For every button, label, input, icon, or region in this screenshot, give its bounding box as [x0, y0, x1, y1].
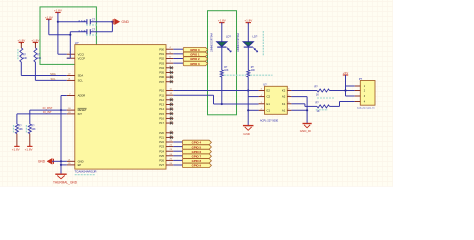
wire P10 to opto E2 — [173, 90, 258, 92]
connector P? body — [360, 81, 375, 106]
net port GPIO 3 — [183, 61, 207, 65]
junction caps to GND — [111, 21, 113, 23]
svg-text:P12: P12 — [159, 98, 164, 102]
no-connect mark on P21 — [170, 136, 173, 139]
svg-text:+1.8V: +1.8V — [31, 38, 39, 42]
wire A1 to GND_DI rail — [291, 109, 307, 111]
capacitor C? row 1 0.1uF — [58, 21, 87, 23]
svg-text:19MM03C5RT04A: 19MM03C5RT04A — [237, 33, 240, 52]
pin P12 (right) — [166, 99, 173, 101]
svg-text:A1: A1 — [282, 108, 286, 112]
svg-text:RESET: RESET — [78, 108, 87, 112]
ground symbol GND (below opto) — [243, 125, 254, 127]
svg-text:P06: P06 — [159, 75, 164, 79]
svg-text:+1.8V: +1.8V — [17, 38, 25, 42]
svg-text:GPIO 3: GPIO 3 — [190, 62, 200, 66]
wire P26 to port — [173, 159, 182, 161]
svg-text:GPIO 0: GPIO 0 — [190, 48, 200, 52]
ground symbol THERMAL_GND — [55, 173, 66, 175]
pin P24 (right) — [166, 150, 173, 152]
pin P11 (right) — [166, 94, 173, 96]
svg-text:GPIO 9: GPIO 9 — [192, 164, 202, 168]
no-connect mark on P15 — [170, 112, 173, 115]
pin RESET (left) — [67, 109, 75, 111]
svg-text:10K: 10K — [19, 128, 24, 131]
svg-text:GND: GND — [243, 132, 251, 136]
wire P23 to port — [173, 146, 182, 148]
opto pin A2 — [287, 96, 291, 98]
svg-text:C?: C? — [92, 18, 96, 22]
power flag +1.8V (VCCP branch) — [46, 18, 51, 20]
svg-text:GPIO 5: GPIO 5 — [192, 145, 202, 149]
svg-text:1K: 1K — [316, 93, 319, 96]
no-connect mark on P16 — [170, 117, 173, 120]
net IO_RST wire to RESET pin — [30, 109, 67, 111]
pin P23 (right) — [166, 146, 173, 148]
pin P20 (right) — [166, 132, 173, 134]
svg-text:ACPL-227-500E: ACPL-227-500E — [260, 119, 279, 122]
svg-text:10K: 10K — [31, 128, 36, 131]
wire C1 to ground rail — [248, 109, 258, 111]
wire P27 to port — [173, 164, 182, 166]
svg-text:TCA6424ARGJR: TCA6424ARGJR — [75, 170, 97, 174]
svg-text:ADDR: ADDR — [78, 94, 86, 98]
resistor R? 10K on IO_RST — [29, 110, 31, 124]
power flag +1.8V above LED 2 — [246, 22, 251, 24]
svg-text:E1: E1 — [267, 102, 271, 106]
resistor R? 10K pullup to SDA — [20, 42, 22, 48]
junction cap row 1 — [57, 21, 59, 23]
LED LD? 2 — [243, 42, 253, 47]
svg-text:19MM03C5RT04A: 19MM03C5RT04A — [211, 33, 214, 52]
svg-text:GND_DI: GND_DI — [300, 129, 312, 133]
svg-text:GND: GND — [38, 160, 46, 164]
svg-text:P11: P11 — [159, 93, 164, 97]
optocoupler U? ACPL-227 body — [265, 86, 288, 114]
wire P03 to port — [173, 62, 183, 64]
svg-text:P17: P17 — [159, 121, 164, 125]
wire ADDR to ground rail — [61, 95, 67, 97]
pin P22 (right) — [166, 141, 173, 143]
svg-text:+1.8V: +1.8V — [12, 148, 20, 152]
svg-text:LD?: LD? — [226, 35, 231, 39]
svg-text:GPIO 4: GPIO 4 — [192, 141, 202, 145]
pin VCCP (left) — [67, 57, 75, 59]
wire flag2 down and over to VCCP riser — [48, 19, 50, 34]
wire resistor1 to connector pin 2 — [330, 90, 355, 92]
net port GPIO 1 — [183, 52, 207, 56]
svg-text:10K: 10K — [251, 69, 256, 72]
junction flag2 / riser — [69, 34, 71, 36]
wire C2 to ground rail — [248, 96, 258, 98]
pin P15 (right) — [166, 113, 173, 115]
power flag +5V — [343, 74, 348, 76]
power flag +1.8V (over cap row 1) — [55, 12, 60, 14]
net port GPIO 2 — [183, 57, 207, 61]
junction GND rail — [60, 160, 62, 162]
power flag +1.8V above R? (pullup 1) — [19, 41, 24, 43]
ground symbol GND_DI — [303, 123, 312, 125]
capacitor C? row 2 0.1uF — [70, 31, 87, 33]
pin P02 (right) — [166, 58, 173, 60]
pin GND (left) — [67, 160, 75, 162]
pin EP (left) — [67, 164, 75, 166]
svg-text:A2: A2 — [282, 95, 286, 99]
svg-text:10K: 10K — [23, 57, 28, 60]
svg-text:U?: U? — [75, 41, 79, 45]
resistor R? 10K below LED 2 — [247, 70, 250, 77]
svg-text:P01: P01 — [159, 52, 164, 56]
wire pullup2 to SCL line — [34, 62, 36, 80]
svg-text:0.1uF: 0.1uF — [79, 29, 86, 33]
pin SCL (left) — [67, 79, 75, 81]
wire P01 to port — [173, 53, 183, 55]
svg-text:P10: P10 — [159, 89, 164, 93]
svg-text:P00: P00 — [159, 47, 164, 51]
svg-text:P14: P14 — [159, 107, 164, 111]
net port GPIO 4 — [183, 140, 212, 144]
svg-text:E2: E2 — [267, 89, 271, 93]
pin P03 (right) — [166, 62, 173, 64]
no-connect mark on P06 — [170, 76, 173, 79]
svg-text:P04: P04 — [159, 66, 164, 70]
no-connect mark on P14 — [170, 108, 173, 111]
resistor R? 10K pullup to SCL — [34, 42, 36, 48]
pin P05 (right) — [166, 71, 173, 73]
svg-text:P?: P? — [359, 77, 363, 81]
resistor R? 1K (K2 line) — [317, 89, 330, 92]
wire pullup1 to SDA line — [20, 62, 22, 76]
opto pin C2 — [259, 96, 265, 98]
svg-text:EP: EP — [78, 163, 82, 167]
green highlight frame around decoupling caps — [40, 7, 96, 65]
svg-text:P23: P23 — [159, 145, 164, 149]
svg-text:INT: INT — [78, 112, 83, 116]
svg-text:P03: P03 — [159, 61, 164, 65]
svg-text:+1.8V: +1.8V — [54, 9, 62, 13]
wire P22 to port — [173, 141, 182, 143]
junction ADDR rail / RESET wire — [60, 109, 62, 111]
wire +1.8V to LED 1 — [221, 23, 223, 42]
power flag +1.8V below (IO_INT pulldown) — [14, 145, 19, 147]
no-connect mark on P17 — [170, 122, 173, 125]
svg-text:P02: P02 — [159, 57, 164, 61]
branch to connector pin 1 — [346, 85, 355, 87]
pin P21 (right) — [166, 136, 173, 138]
pin P06 (right) — [166, 76, 173, 78]
no-connect mark on P04 — [170, 66, 173, 69]
connector pin 4 — [355, 101, 361, 103]
pin INT (left) — [67, 113, 75, 115]
VCCP riser — [69, 32, 71, 59]
pin VCCI (left) — [67, 53, 75, 55]
wire EP to rail — [61, 164, 67, 166]
wire +5V down — [345, 75, 347, 96]
wire P25 to port — [173, 155, 182, 157]
wire LED 1 to resistor — [221, 47, 223, 70]
svg-text:10K: 10K — [224, 69, 229, 72]
svg-text:+1.8V: +1.8V — [25, 148, 33, 152]
svg-text:1K: 1K — [317, 110, 320, 113]
svg-text:THERMAL_GND: THERMAL_GND — [53, 181, 78, 185]
svg-text:B4B-ZR-SM4-TF: B4B-ZR-SM4-TF — [357, 107, 375, 110]
pin P10 (right) — [166, 90, 173, 92]
svg-text:VCCI: VCCI — [78, 52, 85, 56]
IC U? TCA6424ARGJR body — [75, 45, 166, 170]
wire resistor2 jog up to connector pin 4 — [330, 105, 340, 107]
resistor R? 1K (K1 line) — [317, 105, 330, 108]
wire cap row2 riser to GND junction — [111, 22, 113, 32]
svg-text:SCL: SCL — [78, 79, 84, 83]
svg-text:C1: C1 — [267, 108, 271, 112]
pin P01 (right) — [166, 53, 173, 55]
vertical part number text right of LED 2 — [262, 31, 264, 56]
svg-text:GND: GND — [122, 20, 130, 24]
no-connect mark on P12 — [170, 98, 173, 101]
svg-text:P26: P26 — [159, 159, 164, 163]
opto pin K1 — [287, 103, 291, 105]
pin P13 (right) — [166, 103, 173, 105]
net IO_INT wire to INT pin — [17, 113, 67, 115]
svg-text:0.1uF: 0.1uF — [79, 19, 86, 23]
power flag +1.8V below (IO_RST pulldown) — [27, 145, 32, 147]
svg-text:10K: 10K — [37, 57, 42, 60]
pin P07 (right) — [166, 81, 173, 83]
no-connect mark on P20 — [170, 131, 173, 134]
resistor R? 10K on IO_INT — [16, 114, 18, 124]
wire P11 to opto E1 — [173, 94, 213, 96]
no-connect mark on P13 — [170, 103, 173, 106]
svg-text:GPIO 7: GPIO 7 — [192, 154, 202, 158]
opto pin A1 — [287, 109, 291, 111]
svg-text:C?: C? — [92, 28, 96, 32]
svg-text:SCL: SCL — [50, 77, 56, 81]
wire LED column 2 down to P10 net and C-side ground rail — [247, 77, 249, 97]
svg-text:+5V: +5V — [343, 71, 348, 75]
svg-text:P27: P27 — [159, 163, 164, 167]
svg-text:SDA: SDA — [50, 72, 56, 76]
net port GPIO 7 — [183, 154, 212, 158]
net port GPIO 8 — [183, 159, 212, 163]
power flag +1.8V above LED 1 — [219, 22, 224, 24]
resistor R? 10K below LED 1 — [220, 70, 223, 77]
ground flag GND (left of chip) — [47, 158, 52, 164]
opto pin E1 — [259, 103, 265, 105]
svg-text:IO_RST: IO_RST — [43, 106, 53, 110]
wire K2 to resistor R? — [291, 90, 317, 92]
wire P00 to port — [173, 48, 183, 50]
svg-text:LD?: LD? — [253, 35, 258, 39]
svg-text:P22: P22 — [159, 140, 164, 144]
svg-text:K2: K2 — [282, 89, 286, 93]
wire K1 jog to resistor R? — [291, 103, 305, 105]
pin P25 (right) — [166, 155, 173, 157]
svg-text:GPIO 6: GPIO 6 — [192, 150, 202, 154]
svg-text:+1.8V: +1.8V — [244, 19, 252, 23]
green highlight frame around LED LD1 column — [208, 11, 237, 115]
svg-text:IO_INT: IO_INT — [43, 110, 52, 114]
svg-text:P05: P05 — [159, 71, 164, 75]
svg-text:P24: P24 — [159, 149, 164, 153]
pin ADDR (left) — [67, 95, 75, 97]
svg-text:+1.8V: +1.8V — [45, 15, 53, 19]
svg-text:P21: P21 — [159, 136, 164, 140]
wire LED 2 to resistor — [247, 47, 249, 70]
pin P00 (right) — [166, 48, 173, 50]
wire rail down to thermal ground — [60, 161, 62, 173]
svg-text:+1.8V: +1.8V — [218, 19, 226, 23]
wire +1.8V to LED 2 — [247, 23, 249, 42]
svg-text:P13: P13 — [159, 103, 164, 107]
svg-text:P25: P25 — [159, 154, 164, 158]
svg-text:GPIO 1: GPIO 1 — [190, 53, 200, 57]
pin P16 (right) — [166, 117, 173, 119]
svg-text:P20: P20 — [159, 131, 164, 135]
pin SDA (left) — [67, 75, 75, 77]
power flag +1.8V above R? (pullup 2) — [33, 41, 38, 43]
net port GPIO 5 — [183, 145, 212, 149]
svg-text:C2: C2 — [267, 95, 271, 99]
svg-text:SDA: SDA — [78, 74, 84, 78]
no-connect mark on P05 — [170, 71, 173, 74]
net port GPIO 0 — [183, 47, 207, 51]
svg-text:GPIO 2: GPIO 2 — [190, 57, 200, 61]
wire P24 to port — [173, 150, 182, 152]
connector pin 3 — [355, 95, 361, 97]
svg-text:VCCP: VCCP — [78, 56, 86, 60]
pin P26 (right) — [166, 159, 173, 161]
opto pin K2 — [287, 90, 291, 92]
wire A2 to GND_DI rail — [291, 96, 307, 98]
connector pin 2 — [355, 90, 361, 92]
wire flag down to cap row 1 and on to VCCI — [57, 13, 59, 55]
opto pin E2 — [259, 90, 265, 92]
LED LD? 1 — [217, 42, 227, 47]
pin P14 (right) — [166, 108, 173, 110]
svg-text:GPIO 8: GPIO 8 — [192, 159, 202, 163]
svg-text:K1: K1 — [282, 102, 286, 106]
svg-text:P07: P07 — [159, 80, 164, 84]
wire P02 to port — [173, 58, 183, 60]
svg-text:P15: P15 — [159, 112, 164, 116]
pin P27 (right) — [166, 164, 173, 166]
branch to connector pin 3 — [346, 95, 355, 97]
opto pin C1 — [259, 109, 265, 111]
junction +5V / pin2 wire — [344, 89, 346, 91]
net port GPIO 9 — [183, 163, 212, 167]
pin P04 (right) — [166, 67, 173, 69]
ground flag GND (top) — [112, 21, 114, 23]
pin P17 (right) — [166, 122, 173, 124]
connector pin 1 — [355, 85, 361, 87]
wire LED column 1 down to P11 net — [221, 77, 223, 104]
wire GND flag to GND pin — [52, 160, 67, 162]
net port GPIO 6 — [183, 149, 212, 153]
no-connect mark on P07 — [170, 80, 173, 83]
svg-text:P16: P16 — [159, 117, 164, 121]
svg-text:U?: U? — [263, 83, 267, 87]
svg-text:GND: GND — [78, 159, 84, 163]
